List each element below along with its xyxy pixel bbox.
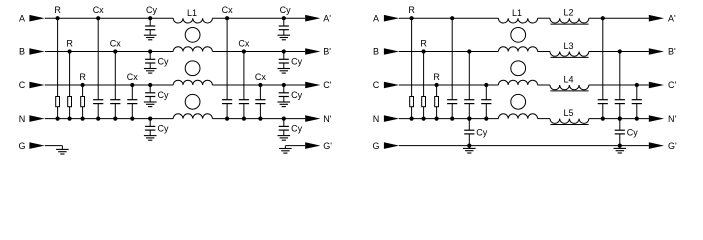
- wire line C right section: [212, 84, 305, 86]
- svg-text:B: B: [19, 47, 25, 57]
- common-mode choke L1 (right filter): [498, 8, 537, 119]
- wire line C right section (right filter): [589, 84, 649, 86]
- wire line A left section: [45, 17, 173, 19]
- svg-text:Cy: Cy: [158, 124, 169, 134]
- port C (left filter input): [19, 80, 45, 90]
- svg-text:B': B': [323, 47, 331, 57]
- ground (left Cy N): [144, 136, 157, 141]
- svg-text:Cx: Cx: [93, 5, 104, 15]
- ground (right Cy B): [278, 69, 291, 74]
- wire G&#39; from ground: [284, 146, 286, 149]
- inductor L4 (line C): [550, 74, 589, 91]
- inductor L2 (line A): [550, 8, 589, 25]
- svg-text:G: G: [18, 141, 25, 151]
- capacitor Cy (N-G) right filter right: [615, 117, 639, 148]
- resistor R (A-N) right filter: [408, 5, 415, 121]
- port B&#39; (right filter output): [649, 47, 676, 57]
- wire line N right section (right filter): [589, 118, 649, 120]
- capacitor (C-N) right filter output bank: [632, 83, 642, 121]
- wire line G (right filter): [399, 145, 649, 147]
- svg-text:A': A': [668, 13, 676, 23]
- wire line B left section (right filter): [399, 51, 499, 53]
- port B&#39; (left filter output): [305, 47, 331, 57]
- svg-text:C': C': [323, 80, 331, 90]
- svg-text:N': N': [668, 114, 676, 124]
- svg-text:B: B: [373, 47, 379, 57]
- svg-text:R: R: [433, 72, 440, 82]
- port G&#39; (left filter output): [305, 141, 332, 151]
- inductor L5 (line N): [550, 108, 589, 125]
- capacitor Cx (A-N) left bank: [93, 5, 104, 121]
- resistor R (B-N): [66, 38, 73, 120]
- resistor R (C-N) right filter: [433, 72, 440, 121]
- svg-text:Cx: Cx: [238, 38, 249, 48]
- svg-text:Cx: Cx: [127, 72, 138, 82]
- resistor R (C-N): [79, 72, 86, 121]
- ground (left Cy B): [144, 69, 157, 74]
- port B (left filter input): [19, 47, 45, 57]
- port A (left filter input): [19, 13, 45, 23]
- svg-text:Cy: Cy: [291, 124, 302, 134]
- wire line C left section: [45, 84, 173, 86]
- capacitor Cx (B-N) left bank: [110, 38, 121, 120]
- port C&#39; (left filter output): [305, 80, 331, 90]
- ground (left filter G&#39;): [279, 149, 292, 154]
- svg-text:G: G: [372, 141, 379, 151]
- svg-text:L2: L2: [563, 8, 573, 18]
- port B (right filter input): [373, 47, 399, 57]
- ground (right Cy N): [278, 136, 291, 141]
- capacitor (A-N) right filter input bank: [447, 16, 457, 121]
- svg-text:G': G': [323, 141, 332, 151]
- wire line B right section (right filter): [589, 51, 649, 53]
- inductor L3 (line B): [550, 41, 589, 58]
- resistor R (B-N) right filter: [420, 38, 427, 120]
- wire line B left section: [45, 51, 173, 53]
- wire line B mid section (right filter): [538, 51, 550, 53]
- svg-text:Cx: Cx: [110, 38, 121, 48]
- svg-text:C: C: [19, 80, 26, 90]
- port A&#39; (left filter output): [305, 13, 331, 23]
- wire line A left section (right filter): [399, 17, 499, 19]
- ground (left Cy C): [144, 102, 157, 107]
- wire G to ground: [45, 145, 63, 147]
- capacitor Cx (A-N) right bank: [222, 5, 233, 121]
- capacitor Cy (N-G) right filter left: [464, 117, 488, 148]
- svg-text:N': N': [323, 114, 331, 124]
- wire line B right section: [212, 51, 305, 53]
- resistor R (A-N): [54, 5, 61, 121]
- capacitor Cy (B-ground) right column: [279, 49, 303, 68]
- port N (left filter input): [19, 114, 45, 124]
- svg-text:Cy: Cy: [158, 90, 169, 100]
- capacitor Cy (C-ground) left column: [145, 83, 169, 102]
- capacitor Cy (A-ground) right column: [279, 5, 291, 35]
- capacitor Cx (C-N) left bank: [127, 72, 138, 121]
- svg-text:R: R: [408, 5, 415, 15]
- wire line N right section: [212, 118, 305, 120]
- wire line C left section (right filter): [399, 84, 499, 86]
- svg-text:Cy: Cy: [291, 90, 302, 100]
- capacitor Cy (B-ground) left column: [145, 49, 169, 68]
- svg-text:B': B': [668, 47, 676, 57]
- svg-text:N: N: [373, 114, 380, 124]
- ground (left filter G): [56, 149, 69, 154]
- wire line N left section (right filter): [399, 118, 499, 120]
- port G&#39; (right filter output): [649, 141, 677, 151]
- wire line A right section: [212, 17, 305, 19]
- capacitor Cy (C-ground) right column: [279, 83, 303, 102]
- wire line N mid section (right filter): [538, 118, 550, 120]
- wire line A right section (right filter): [589, 17, 649, 19]
- svg-text:Cy: Cy: [158, 57, 169, 67]
- port C&#39; (right filter output): [649, 80, 677, 90]
- svg-text:R: R: [66, 38, 73, 48]
- ground (left Cy A): [144, 35, 157, 40]
- svg-text:L4: L4: [563, 74, 573, 84]
- capacitor Cx (B-N) right bank: [238, 38, 249, 120]
- svg-text:A': A': [323, 13, 331, 23]
- svg-text:N: N: [19, 114, 26, 124]
- svg-text:C: C: [373, 80, 380, 90]
- svg-text:Cy: Cy: [476, 127, 487, 137]
- svg-text:R: R: [79, 72, 86, 82]
- port N&#39; (left filter output): [305, 114, 331, 124]
- ground (right filter left Cy): [463, 146, 476, 153]
- ground (right Cy A): [278, 35, 291, 40]
- capacitor (B-N) right filter output bank: [615, 49, 625, 120]
- svg-text:Cy: Cy: [627, 127, 638, 137]
- svg-text:A: A: [19, 13, 25, 23]
- svg-text:Cy: Cy: [280, 5, 291, 15]
- wire line N left section: [45, 118, 173, 120]
- svg-text:Cy: Cy: [291, 57, 302, 67]
- ground (right Cy C): [278, 102, 291, 107]
- svg-text:A: A: [373, 13, 379, 23]
- port G (right filter input): [372, 141, 399, 151]
- svg-text:L1: L1: [187, 8, 197, 18]
- svg-text:Cx: Cx: [255, 72, 266, 82]
- svg-text:Cx: Cx: [222, 5, 233, 15]
- capacitor (B-N) right filter input bank: [464, 49, 474, 120]
- capacitor Cy (A-ground) left column: [145, 5, 157, 35]
- capacitor (A-N) right filter output bank: [598, 16, 608, 121]
- capacitor (C-N) right filter input bank: [481, 83, 491, 121]
- common-mode choke L1 (left filter): [173, 8, 212, 119]
- wire line C mid section (right filter): [538, 84, 550, 86]
- capacitor Cy (N-ground) right column: [279, 117, 303, 136]
- port A (right filter input): [373, 13, 399, 23]
- svg-text:L3: L3: [563, 41, 573, 51]
- port N&#39; (right filter output): [649, 114, 677, 124]
- svg-text:L1: L1: [512, 8, 522, 18]
- ground (right filter right Cy): [614, 146, 627, 153]
- port A&#39; (right filter output): [649, 13, 676, 23]
- svg-text:L5: L5: [563, 108, 573, 118]
- svg-text:C': C': [668, 80, 676, 90]
- svg-text:Cy: Cy: [146, 5, 157, 15]
- svg-text:G': G': [668, 141, 677, 151]
- capacitor Cx (C-N) right bank: [255, 72, 266, 121]
- port C (right filter input): [373, 80, 399, 90]
- capacitor Cy (N-ground) left column: [145, 117, 169, 136]
- port G (left filter input): [18, 141, 44, 151]
- wire line A mid section (right filter): [538, 17, 550, 19]
- port N (right filter input): [373, 114, 399, 124]
- svg-text:R: R: [420, 38, 427, 48]
- svg-text:R: R: [54, 5, 61, 15]
